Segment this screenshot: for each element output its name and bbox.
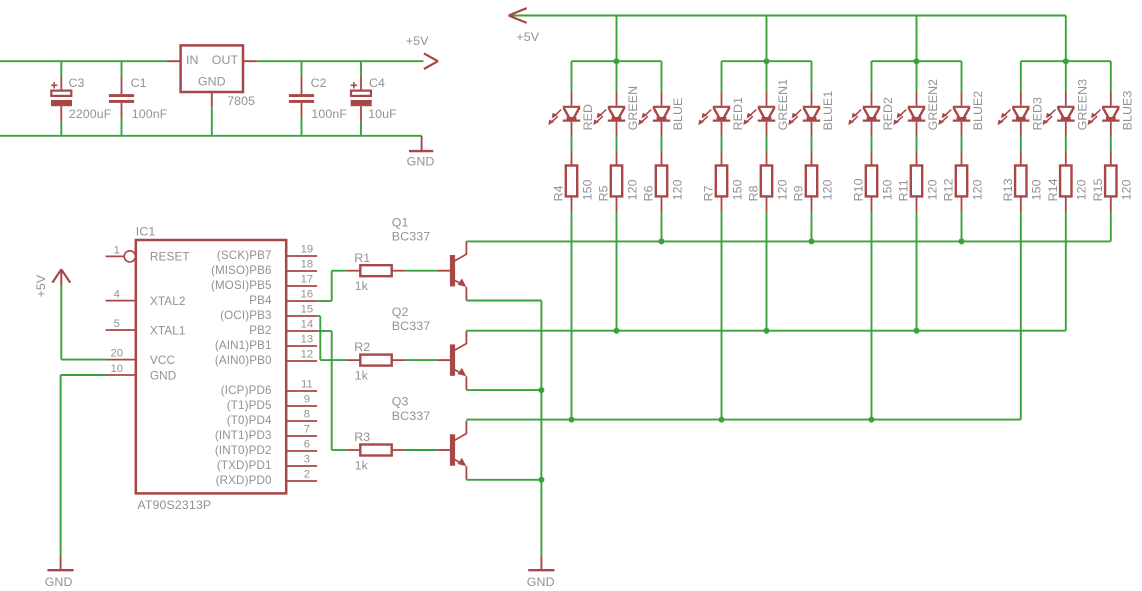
svg-text:RED: RED — [581, 104, 595, 130]
svg-text:Q3: Q3 — [392, 395, 409, 409]
LED BLUE — [638, 92, 670, 136]
wire group 2 anode bus — [722, 60, 812, 62]
svg-text:R14: R14 — [1046, 178, 1060, 201]
svg-text:GREEN: GREEN — [626, 86, 640, 131]
wire RED cathode to R4 — [571, 136, 573, 150]
label BC337 (Q2) — [392, 319, 430, 333]
svg-text:1k: 1k — [355, 279, 369, 293]
label 100nF — [132, 107, 168, 121]
wire group 1 anode bus — [572, 60, 662, 62]
svg-text:R1: R1 — [354, 251, 370, 265]
ground GND (left) — [47, 556, 73, 570]
svg-text:100nF: 100nF — [311, 107, 347, 121]
svg-text:GREEN2: GREEN2 — [926, 79, 940, 131]
wire bottom ground rail — [0, 135, 422, 137]
svg-text:R4: R4 — [552, 185, 566, 201]
label +5V — [406, 34, 429, 48]
svg-text:C1: C1 — [131, 76, 147, 90]
LED RED1 — [698, 92, 730, 136]
wire anode GREEN2 — [916, 61, 918, 92]
resistor R14 — [1060, 151, 1071, 213]
wire PB4 to R1 — [317, 271, 346, 301]
label R4 — [552, 185, 566, 201]
wire BLUE2 cathode to R12 — [961, 136, 963, 150]
wire R7 to bus — [721, 212, 723, 419]
svg-text:(MOSI)PB5: (MOSI)PB5 — [211, 279, 272, 292]
wire anode RED2 — [871, 61, 873, 92]
label GREEN — [626, 86, 640, 131]
LED GREEN3 — [1043, 92, 1075, 136]
label R9 — [792, 185, 806, 201]
label +5V (LED rail) — [516, 30, 539, 44]
svg-text:13: 13 — [301, 334, 314, 346]
svg-text:GND: GND — [407, 154, 435, 168]
label AT90S2313P — [137, 498, 211, 512]
wire anode BLUE2 — [961, 61, 963, 92]
svg-text:XTAL2: XTAL2 — [150, 294, 186, 308]
label Q2 — [392, 305, 409, 319]
resistor R4 — [566, 151, 577, 213]
svg-text:GREEN3: GREEN3 — [1075, 79, 1089, 131]
pin 9 (T1)PD5 — [227, 394, 317, 412]
label R6 — [642, 185, 656, 201]
wire RED2 cathode to R10 — [871, 136, 873, 150]
wire BLUE cathode to R6 — [661, 136, 663, 150]
label Q3 — [392, 395, 409, 409]
wire Q3 collector bus — [466, 419, 1020, 421]
svg-text:120: 120 — [625, 179, 639, 200]
svg-text:XTAL1: XTAL1 — [150, 323, 186, 337]
svg-text:BC337: BC337 — [392, 230, 430, 244]
wire +5V drop group 4 — [1065, 16, 1067, 62]
supply symbol +5V (left arrow) — [509, 8, 527, 23]
svg-text:3: 3 — [304, 454, 310, 466]
svg-text:4: 4 — [114, 289, 120, 301]
label Q1 — [392, 215, 409, 229]
junction group 1 anode bus — [614, 58, 620, 64]
IC IC1 AT90S2313P body — [136, 240, 286, 493]
svg-text:+5V: +5V — [516, 30, 539, 44]
svg-text:R10: R10 — [852, 178, 866, 201]
label BLUE2 — [971, 91, 985, 131]
svg-text:RED3: RED3 — [1030, 97, 1044, 130]
wire R1 to Q1 base — [406, 270, 438, 272]
wire anode BLUE — [661, 61, 663, 92]
svg-text:1k: 1k — [355, 368, 369, 382]
pin 3 (TXD)PD1 — [217, 454, 317, 472]
wire group 3 anode bus — [872, 60, 962, 62]
svg-text:18: 18 — [301, 259, 314, 271]
junction R10 bus — [869, 417, 875, 423]
label 150 (R4) — [580, 179, 594, 200]
svg-text:BLUE: BLUE — [671, 98, 685, 131]
LED GREEN — [593, 92, 625, 136]
LED RED — [548, 92, 580, 136]
svg-text:7: 7 — [304, 424, 310, 436]
pin 2 (RXD)PD0 — [216, 469, 317, 487]
pin 17 (MOSI)PB5 — [211, 274, 317, 292]
pin 8 (T0)PD4 — [227, 409, 317, 427]
resistor R11 — [911, 151, 922, 213]
svg-text:RESET: RESET — [150, 250, 190, 264]
svg-text:(ICP)PD6: (ICP)PD6 — [221, 384, 272, 397]
label +5V (left) — [34, 274, 48, 297]
label GND (left) — [45, 575, 73, 589]
wire Q2 collector bus — [466, 330, 1065, 332]
label RED3 — [1030, 97, 1044, 130]
svg-text:R12: R12 — [942, 178, 956, 201]
label R13 — [1001, 178, 1015, 201]
svg-text:Q1: Q1 — [392, 215, 409, 229]
wire Q2 emitter — [466, 389, 541, 391]
svg-text:+5V: +5V — [34, 274, 48, 297]
label 120 (R8) — [775, 179, 789, 200]
pin 10 GND — [106, 363, 176, 382]
svg-text:R11: R11 — [897, 179, 911, 201]
resistor R13 — [1015, 151, 1026, 213]
wire PB2 to R3 — [317, 331, 346, 450]
label R14 — [1046, 178, 1060, 201]
svg-text:1k: 1k — [355, 458, 369, 472]
svg-text:6: 6 — [304, 439, 310, 451]
label 120 (R12) — [970, 179, 984, 200]
label 120 (R5) — [625, 179, 639, 200]
LED RED3 — [998, 92, 1030, 136]
svg-text:(SCK)PB7: (SCK)PB7 — [217, 249, 272, 262]
svg-text:AT90S2313P: AT90S2313P — [137, 498, 211, 512]
label R2 — [354, 340, 370, 354]
svg-text:BC337: BC337 — [392, 319, 430, 333]
pin 4 XTAL2 — [106, 289, 186, 308]
label BLUE1 — [821, 91, 835, 131]
LED RED2 — [848, 92, 880, 136]
svg-text:(OCI)PB3: (OCI)PB3 — [220, 309, 271, 322]
LED BLUE1 — [788, 92, 820, 136]
wire PB3 to R2 — [317, 316, 346, 360]
wire anode GREEN — [616, 61, 618, 92]
wire anode RED — [571, 61, 573, 92]
wire anode BLUE3 — [1110, 61, 1112, 92]
pin 7 (INT1)PD3 — [215, 424, 317, 442]
transistor Q2 BC337 — [437, 331, 467, 390]
label 120 (R15) — [1120, 179, 1134, 200]
label 150 (R10) — [880, 179, 894, 200]
pin OUT — [243, 60, 257, 62]
wire anode RED1 — [721, 61, 723, 92]
wire R9 to bus — [811, 212, 813, 241]
junction group 4 anode bus — [1063, 58, 1069, 64]
resistor R2 — [346, 355, 406, 366]
svg-text:14: 14 — [301, 319, 314, 331]
svg-text:8: 8 — [304, 409, 310, 421]
svg-text:150: 150 — [580, 179, 594, 200]
label 1k (R3) — [355, 458, 369, 472]
capacitor C1 100nF — [109, 61, 134, 136]
svg-text:BLUE1: BLUE1 — [821, 91, 835, 131]
svg-text:BLUE2: BLUE2 — [971, 91, 985, 131]
wire R11 to bus — [916, 212, 918, 330]
junction R4 bus — [569, 417, 575, 423]
svg-text:2200uF: 2200uF — [69, 107, 112, 121]
wire BLUE1 cathode to R9 — [811, 136, 813, 150]
resistor R12 — [956, 151, 967, 213]
capacitor C2 100nF — [289, 61, 314, 136]
junction Q2 emitter — [538, 387, 544, 393]
svg-text:IC1: IC1 — [136, 224, 156, 238]
label 120 (R6) — [670, 179, 684, 200]
label R11 — [897, 179, 911, 201]
label GREEN1 — [776, 79, 790, 131]
svg-text:C3: C3 — [69, 76, 85, 90]
svg-text:17: 17 — [301, 274, 314, 286]
pin 18 (MISO)PB6 — [211, 259, 317, 277]
wire Q1 emitter — [466, 301, 541, 557]
svg-text:5: 5 — [114, 318, 120, 330]
svg-text:120: 120 — [1120, 179, 1134, 200]
label GREEN3 — [1075, 79, 1089, 131]
label BLUE3 — [1120, 91, 1134, 131]
wire input rail to 7805 IN — [0, 60, 167, 62]
wire R3 to Q3 base — [406, 449, 438, 451]
label 2200uF — [69, 107, 112, 121]
wire RED3 cathode to R13 — [1020, 136, 1022, 150]
LED GREEN1 — [743, 92, 775, 136]
pin 11 (ICP)PD6 — [221, 379, 317, 397]
wire RED1 cathode to R7 — [721, 136, 723, 150]
label R7 — [702, 185, 716, 201]
label IN — [186, 53, 199, 67]
junction R11 bus — [914, 328, 920, 334]
svg-text:(T1)PD5: (T1)PD5 — [227, 399, 272, 412]
junction R6 bus — [659, 238, 665, 244]
svg-text:R9: R9 — [792, 185, 806, 201]
label IC1 — [136, 224, 156, 238]
svg-text:RED2: RED2 — [881, 97, 895, 130]
wire GND net from pin 10 — [61, 375, 107, 556]
svg-text:R7: R7 — [702, 185, 716, 201]
label RED2 — [881, 97, 895, 130]
wire anode GREEN1 — [766, 61, 768, 92]
svg-text:10uF: 10uF — [368, 107, 397, 121]
label 120 (R9) — [820, 179, 834, 200]
wire +5V drop group 3 — [916, 16, 918, 62]
svg-text:20: 20 — [110, 348, 123, 360]
svg-text:R6: R6 — [642, 185, 656, 201]
svg-text:9: 9 — [304, 394, 310, 406]
label 1k (R1) — [355, 279, 369, 293]
capacitor C4 10uF (electrolytic) — [351, 61, 372, 136]
wire 7805 OUT to +5V — [257, 60, 423, 62]
wire R13 to bus — [1020, 212, 1022, 419]
svg-text:120: 120 — [970, 179, 984, 200]
wire GREEN1 cathode to R8 — [766, 136, 768, 150]
svg-text:GND: GND — [150, 368, 177, 382]
ground GND (supply section) — [409, 136, 433, 151]
label GND (emitters) — [527, 575, 555, 589]
transistor Q3 BC337 — [437, 421, 467, 480]
pin 15 (OCI)PB3 — [220, 304, 317, 322]
transistor Q1 BC337 — [437, 241, 467, 300]
wire GREEN3 cathode to R14 — [1065, 136, 1067, 150]
wire +5V LED rail — [510, 15, 1066, 17]
svg-text:(TXD)PD1: (TXD)PD1 — [217, 459, 272, 472]
svg-text:R15: R15 — [1091, 178, 1105, 201]
svg-text:(MISO)PB6: (MISO)PB6 — [211, 264, 272, 277]
svg-text:(AIN0)PB0: (AIN0)PB0 — [215, 354, 272, 367]
resistor R3 — [346, 445, 406, 456]
wire R2 to Q2 base — [406, 359, 438, 361]
junction R5 bus — [614, 328, 620, 334]
svg-text:10: 10 — [110, 363, 123, 375]
resistor R15 — [1105, 151, 1116, 213]
label RED1 — [731, 97, 745, 130]
junction R12 bus — [959, 238, 965, 244]
svg-text:(INT1)PD3: (INT1)PD3 — [215, 429, 272, 442]
label 1k (R2) — [355, 368, 369, 382]
svg-text:R3: R3 — [354, 430, 370, 444]
svg-text:R2: R2 — [354, 340, 370, 354]
ground GND (emitters) — [528, 556, 554, 570]
pin 19 (SCK)PB7 — [217, 244, 317, 262]
resistor R9 — [806, 151, 817, 213]
wire anode BLUE1 — [811, 61, 813, 92]
wire BLUE3 cathode to R15 — [1110, 136, 1112, 150]
label 150 (R13) — [1030, 179, 1044, 200]
label BC337 (Q3) — [392, 409, 430, 423]
wire +5V drop group 1 — [616, 16, 618, 62]
regulator IC2 7805 body — [181, 45, 243, 92]
wire R5 to bus — [616, 212, 618, 330]
label 7805 — [227, 94, 255, 108]
label 120 (R11) — [925, 179, 939, 200]
wire R8 to bus — [766, 212, 768, 330]
label GND (7805) — [198, 74, 226, 88]
wire group 4 anode bus — [1021, 60, 1111, 62]
wire VCC to +5V — [61, 285, 106, 360]
svg-text:PB2: PB2 — [249, 324, 271, 337]
svg-text:R8: R8 — [747, 185, 761, 201]
LED GREEN2 — [893, 92, 925, 136]
LED BLUE2 — [938, 92, 970, 136]
pin 16 PB4 — [249, 289, 317, 307]
wire GREEN2 cathode to R11 — [916, 136, 918, 150]
svg-text:16: 16 — [301, 289, 314, 301]
junction R7 bus — [719, 417, 725, 423]
label C4 — [369, 76, 385, 90]
resistor R1 — [346, 265, 406, 276]
wire R6 to bus — [661, 212, 663, 241]
svg-text:PB4: PB4 — [249, 294, 272, 307]
label C3 — [69, 76, 85, 90]
wire GREEN cathode to R5 — [616, 136, 618, 150]
wire R10 to bus — [871, 212, 873, 419]
label RED — [581, 104, 595, 130]
svg-text:GND: GND — [527, 575, 555, 589]
label GREEN2 — [926, 79, 940, 131]
svg-text:C4: C4 — [369, 76, 385, 90]
junction R9 bus — [809, 238, 815, 244]
label 10uF — [368, 107, 397, 121]
svg-text:120: 120 — [670, 179, 684, 200]
label BLUE — [671, 98, 685, 131]
wire Q1 collector bus — [466, 240, 1110, 242]
label R15 — [1091, 178, 1105, 201]
svg-text:(T0)PD4: (T0)PD4 — [227, 414, 272, 427]
svg-text:C2: C2 — [311, 76, 327, 90]
label 120 (R14) — [1075, 179, 1089, 200]
svg-text:(AIN1)PB1: (AIN1)PB1 — [215, 339, 272, 352]
svg-text:120: 120 — [820, 179, 834, 200]
wire anode GREEN3 — [1065, 61, 1067, 92]
junction R8 bus — [764, 328, 770, 334]
svg-text:Q2: Q2 — [392, 305, 409, 319]
svg-text:IN: IN — [186, 53, 199, 67]
junction Q3 emitter — [538, 477, 544, 483]
svg-text:RED1: RED1 — [731, 97, 745, 130]
supply symbol +5V (right arrow) — [424, 53, 438, 69]
wire R15 to bus — [1110, 212, 1112, 241]
label OUT — [212, 53, 239, 67]
svg-text:BLUE3: BLUE3 — [1120, 91, 1134, 131]
wire anode RED3 — [1020, 61, 1022, 92]
svg-text:GREEN1: GREEN1 — [776, 79, 790, 131]
label R10 — [852, 178, 866, 201]
label R5 — [597, 185, 611, 201]
svg-text:12: 12 — [301, 349, 314, 361]
svg-text:100nF: 100nF — [132, 107, 168, 121]
wire R14 to bus — [1065, 212, 1067, 330]
wire +5V drop group 2 — [766, 16, 768, 62]
svg-text:VCC: VCC — [150, 353, 176, 367]
label R12 — [942, 178, 956, 201]
svg-text:11: 11 — [301, 379, 313, 391]
svg-text:150: 150 — [1030, 179, 1044, 200]
svg-text:OUT: OUT — [212, 53, 239, 67]
label R1 — [354, 251, 370, 265]
label R3 — [354, 430, 370, 444]
pin 13 (AIN1)PB1 — [215, 334, 317, 352]
svg-text:+5V: +5V — [406, 34, 429, 48]
label 100nF (C2) — [311, 107, 347, 121]
resistor R7 — [716, 151, 727, 213]
label C1 — [131, 76, 147, 90]
LED BLUE3 — [1088, 92, 1120, 136]
label R8 — [747, 185, 761, 201]
pin 5 XTAL1 — [106, 318, 186, 337]
pin 20 VCC — [106, 348, 175, 367]
resistor R8 — [761, 151, 772, 213]
pin IN — [167, 60, 181, 62]
svg-text:R5: R5 — [597, 185, 611, 201]
svg-text:15: 15 — [301, 304, 314, 316]
svg-text:(RXD)PD0: (RXD)PD0 — [216, 474, 272, 487]
svg-text:120: 120 — [775, 179, 789, 200]
capacitor C3 2200uF (electrolytic) — [51, 61, 72, 136]
wire R4 to bus — [571, 212, 573, 419]
resistor R5 — [611, 151, 622, 213]
svg-text:2: 2 — [304, 469, 310, 481]
svg-text:(INT0)PD2: (INT0)PD2 — [215, 444, 272, 457]
wire Q3 emitter — [466, 479, 541, 481]
pin 12 (AIN0)PB0 — [215, 349, 317, 367]
label 150 (R7) — [730, 179, 744, 200]
svg-text:7805: 7805 — [227, 94, 255, 108]
svg-text:120: 120 — [925, 179, 939, 200]
wire R12 to bus — [961, 212, 963, 241]
resistor R10 — [866, 151, 877, 213]
svg-text:GND: GND — [45, 575, 73, 589]
label BC337 (Q1) — [392, 230, 430, 244]
